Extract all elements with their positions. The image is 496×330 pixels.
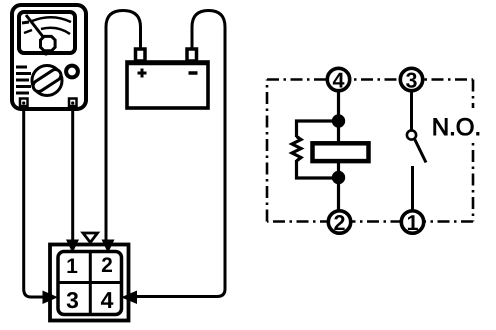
- connector outer shell: [50, 245, 129, 321]
- junction dot lower: [332, 171, 345, 184]
- multimeter M1 display screen: [19, 12, 75, 53]
- connector pin number 2: [102, 257, 112, 272]
- relay terminal 4: [327, 68, 349, 90]
- relay coil body: [313, 143, 369, 161]
- multimeter needle: [26, 15, 44, 38]
- wire multimeter right probe to connector pin 1: [71, 106, 74, 241]
- multimeter probe jack left: [20, 99, 28, 107]
- label N.O.: [430, 108, 484, 141]
- connector cavity dividers: [58, 252, 123, 315]
- relay switch wire from terminal 3: [410, 90, 413, 131]
- multimeter M1 body: [12, 5, 86, 109]
- relay parallel resistor loop: [292, 121, 339, 178]
- relay terminal 3: [400, 68, 422, 90]
- relay case dash-dot border: [267, 80, 473, 222]
- battery - symbol: [189, 71, 198, 75]
- probe arrow into pin 4: [121, 291, 137, 305]
- probe arrow into pin 3: [43, 291, 59, 305]
- relay terminal 1: [401, 211, 423, 233]
- multimeter scale arc upper: [32, 17, 71, 22]
- multimeter range bars: [16, 67, 31, 93]
- battery - terminal post: [187, 49, 197, 61]
- multimeter small knob: [66, 66, 78, 78]
- probe arrow into pin 2: [102, 240, 115, 254]
- multimeter scale tick left: [22, 22, 29, 23]
- wire battery - to connector pin 4: [136, 11, 225, 297]
- relay terminal 2: [328, 211, 350, 233]
- battery B1 body: [127, 62, 208, 108]
- relay switch contact (open circle): [407, 130, 416, 139]
- connector pin number 3: [67, 292, 78, 308]
- connector pin number 4: [101, 292, 113, 308]
- battery + terminal post: [136, 49, 146, 61]
- relay switch wire to terminal 1: [411, 166, 414, 210]
- multimeter rotary knob: [31, 66, 63, 96]
- battery + symbol: [138, 69, 147, 78]
- multimeter probe jack right: [69, 99, 77, 107]
- multimeter scale tick lower-left: [24, 30, 32, 33]
- multimeter scale arc lower: [41, 28, 70, 34]
- multimeter needle pivot: [41, 36, 56, 55]
- connector pin number 1: [67, 259, 77, 273]
- relay coil branch wire (terminal 4 to 2): [337, 90, 340, 211]
- relay switch arm: [415, 140, 426, 163]
- probe arrow into pin 1: [66, 240, 79, 254]
- wire battery + to connector pin 2: [106, 11, 141, 242]
- connector inner housing: [58, 252, 122, 315]
- junction dot upper: [332, 114, 345, 127]
- connector index triangle marker: [83, 233, 98, 243]
- wire multimeter left probe to connector pin 3: [24, 106, 44, 297]
